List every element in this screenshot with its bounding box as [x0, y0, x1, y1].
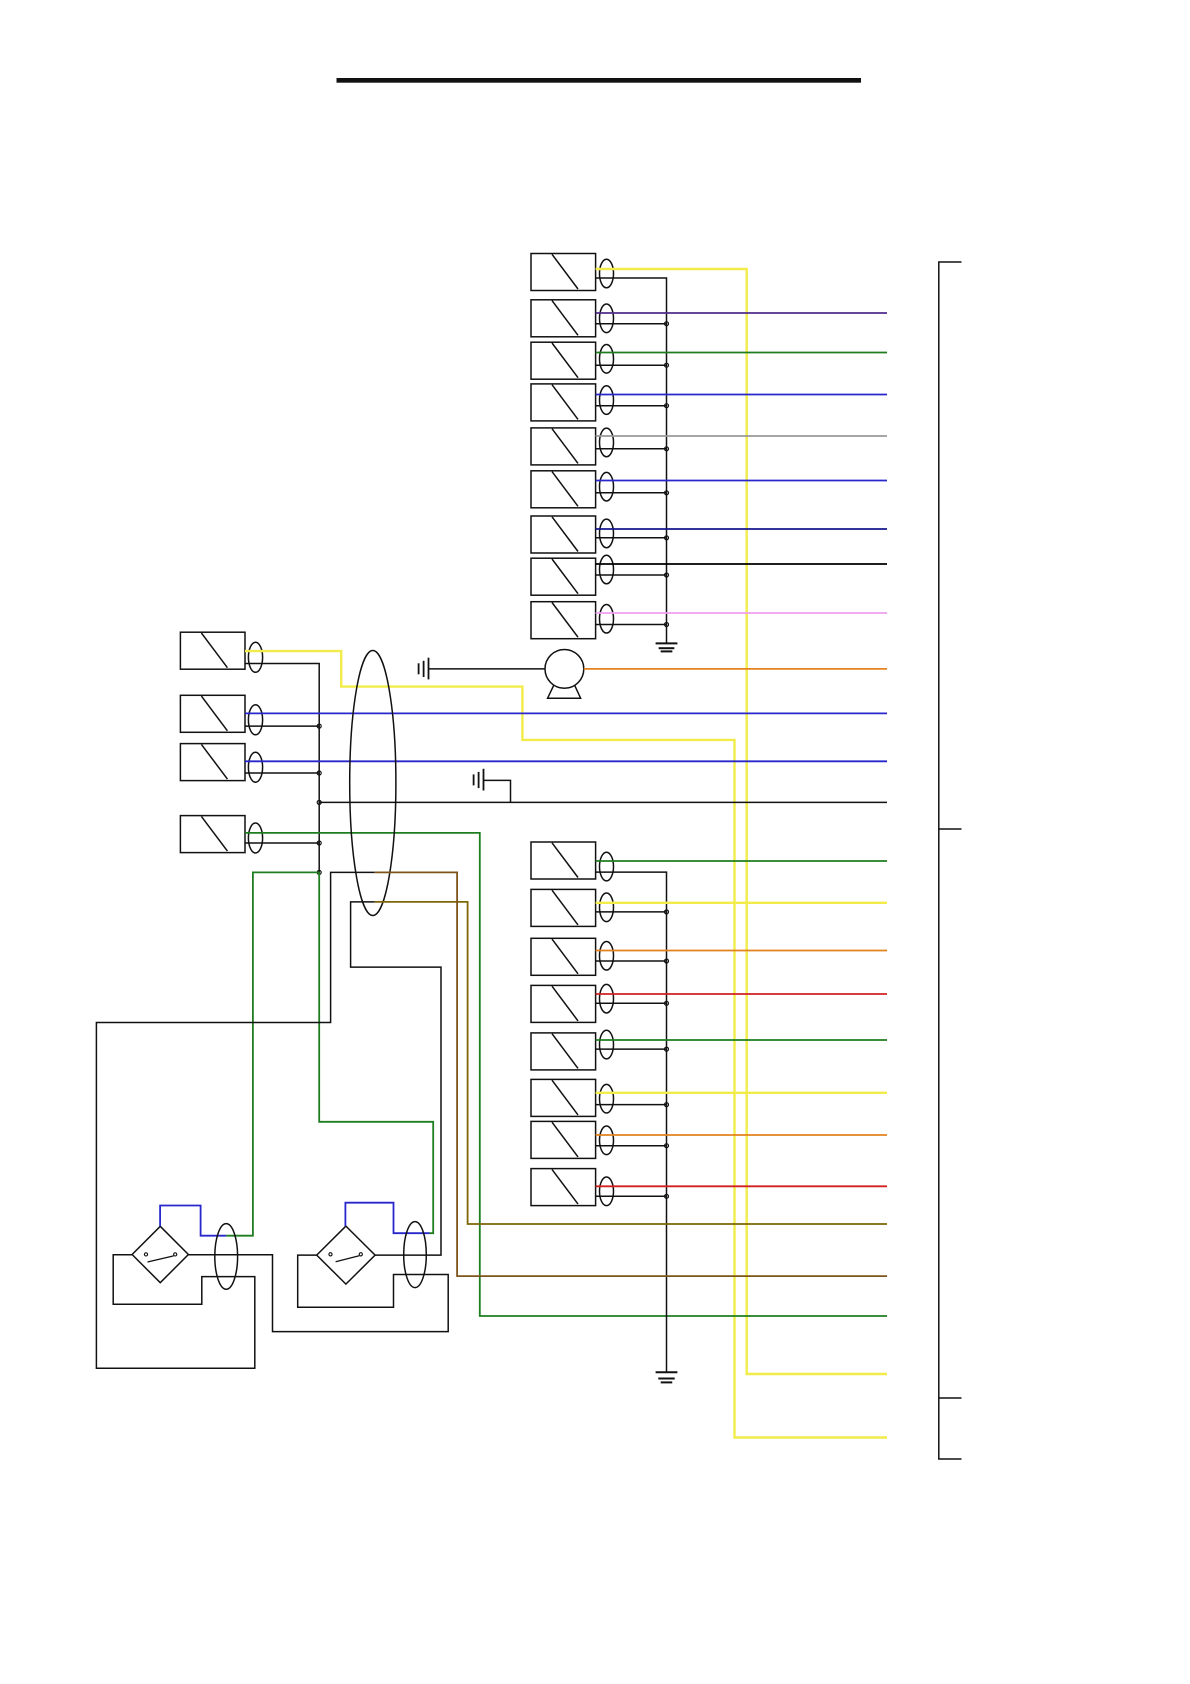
wire F19 to bus: [596, 1104, 667, 1106]
connector ellipse F12: [248, 752, 262, 782]
wire F21 to bus: [596, 1195, 667, 1197]
wire dark-yellow W3: [375, 902, 887, 1224]
wire colored F15: [596, 902, 887, 904]
wire F3 to bus: [596, 364, 667, 366]
connector ellipse F19: [600, 1084, 614, 1113]
switch S2 body: [317, 1226, 375, 1284]
junction green node: [317, 870, 321, 874]
wire F18 to bus: [596, 1048, 667, 1050]
switch S2 contact left: [329, 1253, 332, 1256]
wire yellow W1 from F1 to lower right: [596, 269, 887, 1374]
wire green F13: [245, 833, 887, 1316]
fuse F4: [531, 384, 596, 421]
connector ellipse F8: [600, 555, 614, 584]
junction F11 bus: [317, 724, 321, 728]
connector ellipse F18: [600, 1030, 614, 1059]
fuse F9: [531, 602, 596, 639]
junction F18 bus: [665, 1047, 669, 1051]
fuse F13: [180, 816, 245, 853]
wire colored F6: [596, 480, 887, 482]
wire ground G2 drop: [484, 780, 511, 802]
connector ellipse F4: [600, 386, 614, 415]
junction F21 bus: [665, 1194, 669, 1198]
motor M1: [545, 650, 584, 699]
junction F4 bus: [665, 404, 669, 408]
junction F8 bus: [665, 573, 669, 577]
wire F5 to bus: [596, 448, 667, 450]
chassis ground G2: [474, 769, 484, 791]
fuse F2: [531, 300, 596, 337]
title underline bar: [337, 78, 862, 83]
connector ellipse F3: [600, 345, 614, 374]
connector ellipse S2: [404, 1222, 427, 1288]
wire colored F7: [596, 528, 887, 530]
wire ground to motor: [429, 668, 546, 670]
wire blue F11: [245, 712, 887, 714]
wire dark-yellow W4: [375, 872, 887, 1276]
wire link S1 to S2: [188, 1255, 448, 1332]
junction F15 bus: [665, 910, 669, 914]
junction F19 bus: [665, 1103, 669, 1107]
junction F13 bus: [317, 841, 321, 845]
wire colored F18: [596, 1039, 887, 1041]
wire F15 to bus: [596, 911, 667, 913]
wire yellow W2 from F10: [245, 651, 887, 1437]
switch S2 blade: [336, 1256, 360, 1262]
fuse F3: [531, 342, 596, 379]
fuse F11: [180, 695, 245, 732]
fuse F15: [531, 889, 596, 926]
connector ellipse F2: [600, 304, 614, 333]
junction F3 bus: [665, 363, 669, 367]
connector ellipse F13: [248, 823, 262, 853]
wire F1 to ground bus: [596, 278, 667, 643]
junction F2 bus: [665, 322, 669, 326]
connector ellipse F6: [600, 472, 614, 501]
wire green to switch S2: [319, 872, 433, 1233]
wire colored F8: [596, 563, 887, 565]
junction F20 bus: [665, 1144, 669, 1148]
fuse F1: [531, 254, 596, 291]
fuse F21: [531, 1169, 596, 1206]
fuse F6: [531, 471, 596, 508]
wire colored F17: [596, 993, 887, 995]
wire colored F4: [596, 394, 887, 396]
earth ground bottom bus: [656, 1372, 678, 1382]
connector ellipse F7: [600, 519, 614, 548]
fuse F17: [531, 985, 596, 1022]
junction F7 bus: [665, 536, 669, 540]
chassis ground G1: [419, 658, 429, 680]
wire green to switch S1: [226, 872, 319, 1235]
connector ellipse F15: [600, 893, 614, 922]
switch S2 contact right: [359, 1253, 362, 1256]
wire F10 to left bus: [245, 664, 319, 873]
wire colored F21: [596, 1185, 887, 1187]
connector ellipse F11: [248, 705, 262, 735]
switch S1 body: [132, 1226, 188, 1282]
wire F14 to ground bus: [596, 872, 667, 1372]
bracket tick mid: [939, 828, 962, 830]
switch S1 blade: [148, 1256, 174, 1262]
wire colored F3: [596, 352, 887, 354]
connector ellipse F17: [600, 984, 614, 1013]
wire F9 to bus: [596, 624, 667, 626]
connector ellipse F10: [248, 642, 262, 672]
fuse F10: [180, 632, 245, 669]
junction common bus: [317, 800, 321, 804]
wire F12 to bus: [245, 772, 319, 774]
wire switch S2 return black: [351, 902, 441, 1255]
wire colored F16: [596, 950, 887, 952]
wire F6 to bus: [596, 492, 667, 494]
wire F7 to bus: [596, 537, 667, 539]
wire colored F14: [596, 860, 887, 862]
fuse F12: [180, 744, 245, 781]
wire F2 to bus: [596, 323, 667, 325]
connector ellipse F21: [600, 1177, 614, 1206]
wire blue F12: [245, 760, 887, 762]
wire black common: [319, 801, 887, 803]
connector ellipse F1: [600, 259, 614, 288]
connector ellipse F5: [600, 428, 614, 457]
wire colored F19: [596, 1092, 887, 1094]
switch S1 contact right: [174, 1253, 177, 1256]
fuse F19: [531, 1079, 596, 1116]
wire F11 to bus: [245, 725, 319, 727]
fuse F5: [531, 428, 596, 465]
junction F16 bus: [665, 959, 669, 963]
junction F17 bus: [665, 1001, 669, 1005]
wire colored F5: [596, 435, 887, 437]
fuse F16: [531, 938, 596, 975]
fuse F7: [531, 516, 596, 553]
wire F17 to bus: [596, 1002, 667, 1004]
wire F20 to bus: [596, 1145, 667, 1147]
wire colored F9: [596, 612, 887, 614]
wire colored F2: [596, 312, 887, 314]
junction F12 bus: [317, 771, 321, 775]
wire blue S1: [160, 1206, 226, 1236]
connector ellipse F14: [600, 852, 614, 881]
junction F9 bus: [665, 623, 669, 627]
switch S1 contact left: [144, 1253, 147, 1256]
wire colored F20: [596, 1134, 887, 1136]
junction F5 bus: [665, 447, 669, 451]
wire F16 to bus: [596, 960, 667, 962]
connector ellipse F16: [600, 941, 614, 970]
fuse F18: [531, 1033, 596, 1070]
fuse F8: [531, 558, 596, 595]
connector ellipse F9: [600, 604, 614, 633]
wire F4 to bus: [596, 405, 667, 407]
connector ellipse S1: [215, 1224, 238, 1290]
wire F13 to bus: [245, 842, 319, 844]
harness bracket right: [939, 262, 962, 1459]
fuse F14: [531, 842, 596, 879]
bracket tick lower: [939, 1397, 962, 1399]
connector ellipse F20: [600, 1126, 614, 1155]
wire F8 to bus: [596, 574, 667, 576]
wire orange motor output: [584, 668, 887, 670]
wire switch S1 return black: [96, 872, 374, 1368]
fuse F20: [531, 1121, 596, 1158]
junction F6 bus: [665, 491, 669, 495]
wire blue S2: [345, 1203, 429, 1234]
cable sheath ellipse: [350, 651, 396, 916]
earth ground top bus: [656, 643, 678, 651]
